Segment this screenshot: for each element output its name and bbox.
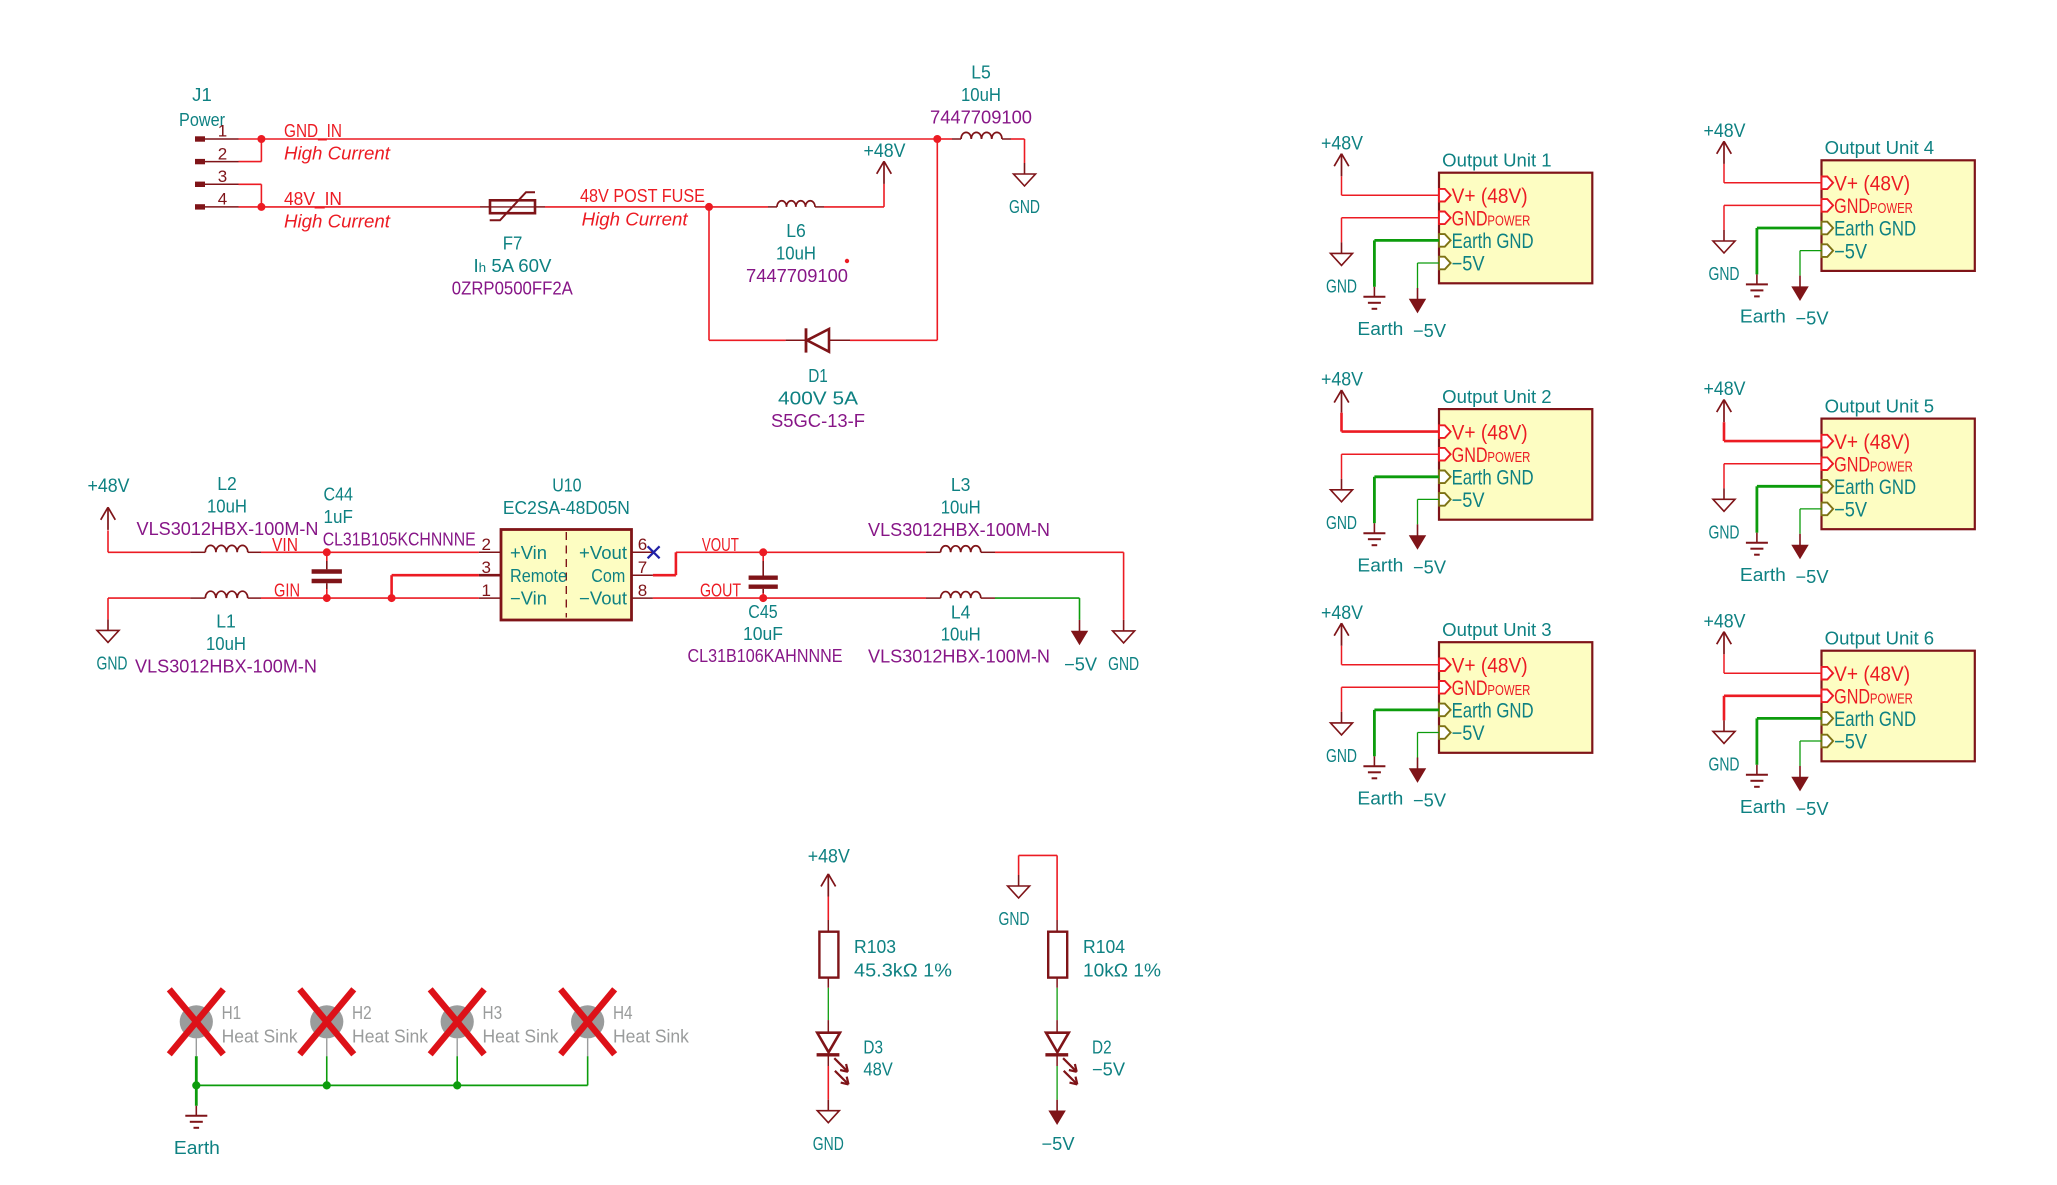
svg-text:10kΩ 1%: 10kΩ 1% (1083, 961, 1161, 981)
wire GND unit 4 (1724, 205, 1822, 230)
svg-text:POWER: POWER (1487, 450, 1530, 466)
svg-text:GND: GND (1834, 686, 1870, 709)
sheet Output Unit 4 (1822, 138, 1975, 271)
svg-text:GND: GND (1709, 755, 1740, 775)
LED D2 (1045, 1020, 1077, 1084)
inductor L6 (768, 201, 824, 207)
sheet pin V+ (48V) unit 3 (1439, 654, 1528, 677)
wire GND_IN (261, 138, 937, 140)
svg-text:−5V: −5V (1413, 791, 1446, 811)
svg-text:+48V: +48V (88, 476, 130, 497)
power GND unit 3 (1341, 712, 1343, 723)
sheet pin GND POWER unit 5 (1822, 453, 1913, 476)
power -5V unit 2 (1417, 524, 1419, 536)
svg-text:Earth: Earth (1357, 788, 1403, 808)
svg-text:8: 8 (638, 581, 647, 600)
junction pins 3-4 (257, 203, 265, 211)
wire Earth unit 2 (1374, 477, 1439, 523)
svg-text:D2: D2 (1092, 1038, 1112, 1058)
wire Earth unit 5 (1757, 486, 1822, 532)
svg-text:J1: J1 (192, 85, 212, 105)
power +48V unit 1 (1341, 154, 1343, 177)
svg-text:−5V: −5V (1796, 567, 1829, 587)
svg-text:Earth GND: Earth GND (1452, 467, 1534, 490)
svg-text:10uH: 10uH (206, 634, 246, 654)
sheet Output Unit 5 (1822, 396, 1975, 529)
svg-text:GND: GND (999, 909, 1030, 929)
svg-text:GND: GND (97, 654, 128, 674)
svg-text:High Current: High Current (582, 208, 689, 229)
power -5V (D2) (1056, 1100, 1058, 1112)
svg-text:3: 3 (218, 167, 227, 186)
sheet Output Unit 3 (1439, 620, 1592, 753)
power -5V (output filter) (1079, 620, 1081, 632)
svg-text:POWER: POWER (1487, 213, 1530, 229)
power -5V unit 4 (1799, 276, 1801, 288)
svg-text:Earth: Earth (1740, 565, 1786, 585)
svg-text:6: 6 (638, 535, 647, 554)
wire +48V to V+ unit 2 (1342, 413, 1440, 432)
svg-text:−5V: −5V (1834, 499, 1867, 522)
svg-text:Heat Sink: Heat Sink (352, 1026, 429, 1046)
wire C44 to junction remote (327, 597, 392, 599)
power +48V (LED) (827, 874, 829, 897)
svg-text:GND: GND (1452, 677, 1488, 700)
sheet pin Earth GND unit 1 (1439, 230, 1534, 253)
power Earth unit 2 (1373, 523, 1375, 533)
svg-text:Earth: Earth (1357, 319, 1403, 339)
sheet pin Earth GND unit 3 (1439, 700, 1534, 723)
svg-text:Earth: Earth (1740, 797, 1786, 817)
svg-text:Heat Sink: Heat Sink (483, 1026, 560, 1046)
junction VOUT C45 (759, 548, 767, 556)
svg-text:POWER: POWER (1870, 691, 1913, 707)
power GND unit 6 (1723, 720, 1725, 731)
svg-text:L5: L5 (971, 63, 991, 83)
power -5V unit 3 (1417, 758, 1419, 770)
svg-text:10uF: 10uF (743, 624, 783, 644)
sheet pin Earth GND unit 5 (1822, 476, 1917, 499)
junction earth H2 (323, 1081, 331, 1089)
junction remote branch (388, 594, 396, 602)
wire fuse to junction (545, 206, 709, 208)
sheet pin V+ (48V) unit 6 (1822, 663, 1911, 686)
svg-text:Output Unit 3: Output Unit 3 (1442, 620, 1551, 640)
wire Earth unit 4 (1757, 228, 1822, 274)
svg-text:+48V: +48V (1704, 379, 1746, 400)
pin 7 Com (591, 558, 653, 586)
svg-text:CL31B106KAHNNNE: CL31B106KAHNNNE (688, 646, 843, 666)
svg-text:−Vout: −Vout (579, 589, 627, 609)
svg-text:GND: GND (1009, 197, 1040, 217)
wire +48V to R103 (827, 897, 829, 921)
sheet pin Earth GND unit 4 (1822, 218, 1917, 241)
wire L5 to GND (1011, 139, 1025, 163)
svg-text:+48V: +48V (1321, 370, 1363, 391)
wire Earth unit 6 (1757, 718, 1822, 764)
svg-text:GND: GND (1326, 513, 1357, 533)
resistor R103 (819, 920, 838, 988)
sheet pin GND POWER unit 6 (1822, 686, 1913, 709)
sheet pin -5V unit 4 (1822, 240, 1868, 263)
DNP cross H3 (430, 989, 484, 1054)
mounting hole H4 (571, 1005, 604, 1056)
sheet pin V+ (48V) unit 1 (1439, 185, 1528, 208)
power Earth unit 3 (1373, 756, 1375, 766)
wire pin4 stub (239, 206, 262, 208)
DC-DC converter U10 (501, 530, 632, 621)
svg-text:GND: GND (1709, 264, 1740, 284)
svg-text:Output Unit 5: Output Unit 5 (1825, 396, 1934, 416)
wire C44 to U10 pin2 (327, 551, 479, 553)
svg-text:Output Unit 4: Output Unit 4 (1825, 138, 1934, 158)
svg-text:R103: R103 (854, 937, 896, 957)
wire -5V unit 4 (1800, 251, 1822, 276)
svg-text:POWER: POWER (1870, 459, 1913, 475)
fuse F7 (480, 192, 545, 220)
svg-text:+48V: +48V (1321, 603, 1363, 624)
svg-text:POWER: POWER (1870, 201, 1913, 217)
svg-text:C44: C44 (324, 485, 353, 505)
svg-text:−5V: −5V (1064, 655, 1097, 675)
inductor L4 (926, 592, 995, 599)
svg-text:Earth GND: Earth GND (1452, 700, 1534, 723)
svg-text:1: 1 (482, 581, 491, 600)
svg-text:10uH: 10uH (941, 498, 981, 518)
sheet pin -5V unit 1 (1439, 253, 1485, 276)
wire GND to GIN row (108, 598, 190, 619)
svg-text:Com: Com (591, 566, 625, 586)
power GND (R104) (1018, 875, 1020, 886)
svg-text:1uF: 1uF (324, 507, 353, 527)
wire Earth unit 3 (1374, 710, 1439, 756)
svg-text:High Current: High Current (284, 143, 391, 164)
wire +48V to V+ unit 4 (1724, 164, 1822, 183)
svg-text:Heat Sink: Heat Sink (222, 1026, 299, 1046)
wire GND unit 3 (1342, 687, 1440, 712)
svg-text:+48V: +48V (1704, 611, 1746, 632)
resistor R104 (1048, 920, 1067, 988)
svg-text:Earth GND: Earth GND (1834, 476, 1916, 499)
svg-text:Earth: Earth (174, 1138, 220, 1158)
svg-text:EC2SA-48D05N: EC2SA-48D05N (503, 498, 630, 518)
junction GIN C44 (323, 594, 331, 602)
wire -5V unit 2 (1418, 499, 1440, 524)
wire 48V_IN to fuse (261, 206, 480, 208)
mounting hole H2 (310, 1005, 343, 1056)
sheet pin V+ (48V) unit 2 (1439, 421, 1528, 444)
pin 6 +Vout (579, 535, 654, 563)
no-connect X pin 6 (648, 546, 660, 558)
junction 48V POST FUSE (705, 203, 713, 211)
svg-text:10uH: 10uH (207, 497, 247, 517)
wire H1 to earth bus (195, 1056, 198, 1085)
power Earth unit 1 (1373, 287, 1375, 297)
svg-text:L1: L1 (216, 612, 236, 632)
LED D3 (817, 1020, 849, 1084)
wire L1 to C44 bottom (261, 597, 327, 599)
sheet pin Earth GND unit 2 (1439, 467, 1534, 490)
wire +48V to V+ unit 3 (1342, 646, 1440, 665)
inductor L1 (190, 591, 261, 598)
sheet pin -5V unit 6 (1822, 731, 1868, 754)
svg-text:+48V: +48V (1321, 133, 1363, 154)
wire junction to U10 pin1 (392, 597, 479, 599)
inductor L3 (926, 546, 995, 553)
svg-text:GND: GND (1326, 277, 1357, 297)
pin 3 Remote (479, 558, 567, 586)
svg-text:7447709100: 7447709100 (930, 108, 1032, 128)
svg-text:H3: H3 (483, 1003, 503, 1023)
power -5V unit 6 (1799, 766, 1801, 778)
sheet pin -5V unit 2 (1439, 489, 1485, 512)
svg-text:H2: H2 (352, 1003, 372, 1023)
svg-text:High Current: High Current (284, 211, 391, 232)
svg-text:400V 5A: 400V 5A (778, 388, 858, 408)
power GND unit 2 (1341, 479, 1343, 490)
svg-text:2: 2 (218, 144, 227, 163)
svg-text:1: 1 (218, 122, 227, 141)
sheet pin -5V unit 5 (1822, 499, 1868, 522)
svg-text:D3: D3 (863, 1038, 883, 1058)
svg-text:VLS3012HBX-100M-N: VLS3012HBX-100M-N (135, 657, 317, 677)
wire +48V to V+ unit 6 (1724, 654, 1822, 673)
svg-text:−5V: −5V (1796, 799, 1829, 819)
mounting hole H3 (441, 1005, 474, 1056)
wire GND unit 1 (1342, 218, 1440, 243)
svg-text:−Vin: −Vin (510, 589, 547, 609)
svg-text:+Vin: +Vin (510, 543, 547, 563)
wire -5V unit 6 (1800, 741, 1822, 766)
power +48V unit 6 (1723, 632, 1725, 655)
power -5V unit 1 (1417, 288, 1419, 300)
power GND unit 4 (1723, 230, 1725, 241)
svg-text:−5V: −5V (1452, 722, 1485, 745)
wire pin8 GOUT row (653, 597, 926, 599)
junction earth H1 (192, 1081, 200, 1089)
wire D1 to right riser (850, 139, 937, 340)
inductor L5 (952, 132, 1011, 139)
power GND unit 1 (1341, 242, 1343, 253)
svg-text:CL31B105KCHNNNE: CL31B105KCHNNNE (323, 530, 476, 550)
wire junction to D1 (709, 207, 786, 340)
power GND (top right) (1024, 163, 1026, 174)
wire R104 to D2 (1056, 988, 1058, 1020)
svg-text:V+ (48V): V+ (48V) (1834, 663, 1910, 686)
svg-text:−5V: −5V (1834, 731, 1867, 754)
svg-text:Earth: Earth (1357, 555, 1403, 575)
wire GND unit 5 (1724, 464, 1822, 489)
svg-text:10uH: 10uH (776, 244, 816, 264)
svg-text:+48V: +48V (1704, 121, 1746, 142)
svg-text:7: 7 (638, 558, 647, 577)
pin 2 +Vin (479, 535, 547, 563)
svg-text:S5GC-13-F: S5GC-13-F (771, 411, 865, 431)
diode D1 (786, 328, 850, 352)
svg-text:Output Unit 2: Output Unit 2 (1442, 387, 1551, 407)
wire -5V unit 5 (1800, 509, 1822, 534)
wire H2 to earth bus (326, 1056, 328, 1085)
svg-text:VLS3012HBX-100M-N: VLS3012HBX-100M-N (868, 647, 1050, 667)
wire L3 to GND riser (995, 552, 1124, 620)
svg-text:U10: U10 (552, 475, 581, 495)
junction GOUT C45 (759, 594, 767, 602)
svg-text:Output Unit 6: Output Unit 6 (1825, 629, 1934, 649)
wire pin7 to VOUT row (653, 552, 676, 575)
svg-text:POWER: POWER (1487, 683, 1530, 699)
svg-text:7447709100: 7447709100 (746, 266, 848, 286)
wire GND unit 2 (1342, 454, 1440, 479)
wire VOUT row (676, 551, 926, 553)
sheet pin GND POWER unit 1 (1439, 208, 1530, 231)
svg-text:10uH: 10uH (961, 85, 1001, 105)
power Earth (heat sinks) (195, 1106, 197, 1116)
svg-text:H1: H1 (222, 1003, 242, 1023)
svg-text:V+ (48V): V+ (48V) (1452, 185, 1528, 208)
wire earth bus (196, 1084, 587, 1086)
power GND unit 5 (1723, 488, 1725, 499)
wire L6 to +48V (824, 184, 884, 207)
svg-text:GND: GND (1834, 453, 1870, 476)
svg-text:GND: GND (1834, 195, 1870, 218)
capacitor C44 (312, 552, 342, 598)
power +48V unit 5 (1723, 400, 1725, 423)
junction VIN C44 (323, 548, 331, 556)
wire +48V to V+ unit 5 (1724, 422, 1822, 441)
svg-text:−5V: −5V (1796, 309, 1829, 329)
power +48V unit 3 (1341, 623, 1343, 646)
svg-text:Remote: Remote (510, 566, 567, 586)
svg-text:45.3kΩ 1%: 45.3kΩ 1% (854, 961, 952, 981)
wire pin1 to junction (239, 138, 262, 140)
svg-text:R104: R104 (1083, 937, 1125, 957)
svg-text:Heat Sink: Heat Sink (613, 1026, 690, 1046)
sheet pin V+ (48V) unit 5 (1822, 431, 1911, 454)
svg-text:V+ (48V): V+ (48V) (1452, 421, 1528, 444)
svg-text:Earth: Earth (1740, 307, 1786, 327)
wire junction to L5 (937, 138, 952, 140)
power GND (output filter) (1123, 620, 1125, 631)
sheet pin Earth GND unit 6 (1822, 708, 1917, 731)
svg-text:−5V: −5V (1092, 1059, 1125, 1079)
svg-text:GND: GND (1452, 208, 1488, 231)
svg-text:L2: L2 (217, 474, 237, 494)
wire -5V unit 3 (1418, 733, 1440, 758)
svg-text:+Vout: +Vout (579, 543, 627, 563)
svg-text:Ih 5A 60V: Ih 5A 60V (474, 256, 552, 276)
wire junction to L6 (709, 206, 768, 208)
svg-text:V+ (48V): V+ (48V) (1452, 654, 1528, 677)
svg-text:VLS3012HBX-100M-N: VLS3012HBX-100M-N (868, 520, 1050, 540)
power Earth unit 5 (1756, 533, 1758, 543)
wire H4 to earth bus (587, 1056, 589, 1085)
svg-text:+48V: +48V (864, 141, 906, 162)
svg-text:10uH: 10uH (941, 625, 981, 645)
DNP cross H2 (300, 989, 354, 1054)
power Earth unit 6 (1756, 765, 1758, 775)
power +48V unit 4 (1723, 141, 1725, 164)
DNP cross H4 (561, 989, 615, 1054)
wire GND to R104 (1019, 855, 1058, 920)
junction pins 1-2 (257, 135, 265, 143)
svg-text:L3: L3 (951, 475, 971, 495)
svg-text:3: 3 (482, 558, 491, 577)
svg-text:GND: GND (813, 1134, 844, 1154)
inductor L2 (190, 545, 261, 552)
svg-text:GND: GND (1108, 654, 1139, 674)
svg-text:L4: L4 (951, 602, 971, 622)
power +48V unit 2 (1341, 390, 1343, 413)
svg-text:Earth GND: Earth GND (1834, 708, 1916, 731)
svg-text:GND: GND (1326, 746, 1357, 766)
wire +48V to VIN row (108, 530, 190, 552)
svg-text:D1: D1 (808, 366, 828, 386)
svg-text:V+ (48V): V+ (48V) (1834, 173, 1910, 196)
svg-text:4: 4 (218, 190, 227, 209)
svg-text:Earth GND: Earth GND (1834, 218, 1916, 241)
wire remote branch to U10 pin3 (392, 575, 479, 598)
svg-text:−5V: −5V (1834, 240, 1867, 263)
sheet pin -5V unit 3 (1439, 722, 1485, 745)
wire GND unit 6 (1724, 696, 1822, 721)
capacitor C45 (749, 552, 778, 598)
sheet pin V+ (48V) unit 4 (1822, 173, 1911, 196)
wire H3 to earth bus (456, 1056, 458, 1085)
junction L5 (933, 135, 941, 143)
mounting hole H1 (180, 1005, 213, 1056)
svg-text:L6: L6 (786, 221, 806, 241)
svg-text:F7: F7 (503, 234, 523, 254)
sheet pin GND POWER unit 2 (1439, 444, 1530, 467)
power GND (D3) (827, 1100, 829, 1111)
wire +48V to V+ unit 1 (1342, 176, 1440, 195)
svg-text:−5V: −5V (1042, 1134, 1075, 1154)
wire pin3 branch (239, 184, 262, 207)
wire R103 to D3 (827, 988, 829, 1020)
svg-text:GND: GND (1452, 444, 1488, 467)
svg-text:−5V: −5V (1452, 253, 1485, 276)
svg-text:H4: H4 (613, 1003, 633, 1023)
svg-text:2: 2 (482, 535, 491, 554)
wire bus to Earth symbol (195, 1085, 198, 1105)
marker dot (845, 259, 849, 263)
wire L4 to -5V (995, 598, 1080, 620)
wire -5V unit 1 (1418, 263, 1440, 288)
svg-text:−5V: −5V (1413, 321, 1446, 341)
power +48V (input filter) (107, 507, 109, 530)
svg-text:−5V: −5V (1413, 558, 1446, 578)
wire L2 to C44 (261, 551, 327, 553)
sheet Output Unit 1 (1439, 151, 1592, 284)
junction earth H3 (453, 1081, 461, 1089)
svg-text:V+ (48V): V+ (48V) (1834, 431, 1910, 454)
svg-text:48V: 48V (863, 1059, 892, 1079)
wire pin2 branch (239, 139, 262, 162)
svg-text:GND: GND (1709, 522, 1740, 542)
svg-text:+48V: +48V (808, 846, 850, 867)
wire D2 to -5V (1056, 1066, 1058, 1100)
svg-text:C45: C45 (748, 602, 777, 622)
pin 8 -Vout (579, 581, 653, 609)
DNP cross H1 (169, 989, 223, 1054)
svg-text:Earth GND: Earth GND (1452, 230, 1534, 253)
connector J1 (179, 85, 239, 209)
wire Earth unit 1 (1374, 240, 1439, 286)
svg-text:48V POST FUSE: 48V POST FUSE (580, 185, 705, 206)
svg-text:0ZRP0500FF2A: 0ZRP0500FF2A (452, 279, 573, 299)
sheet Output Unit 2 (1439, 387, 1592, 520)
sheet Output Unit 6 (1822, 629, 1975, 762)
